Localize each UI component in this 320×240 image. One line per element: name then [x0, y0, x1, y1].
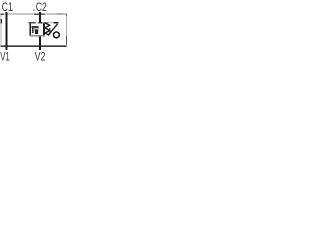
- svg-text:C1: C1: [2, 0, 13, 14]
- svg-text:V1: V1: [0, 49, 10, 61]
- svg-text:C2: C2: [36, 0, 47, 14]
- svg-text:V2: V2: [35, 49, 46, 61]
